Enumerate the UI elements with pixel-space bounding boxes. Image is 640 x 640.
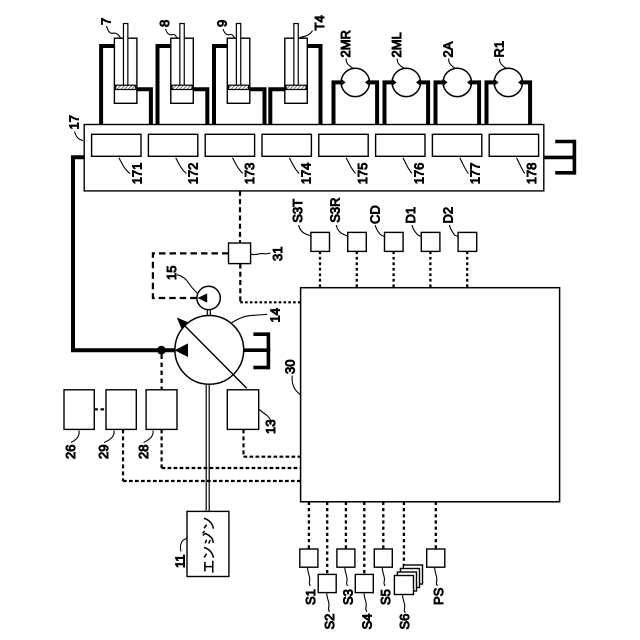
box 29 (106, 390, 136, 430)
wire dashed below box31 (239, 264, 241, 303)
wire dotted controller to S2 (326, 502, 328, 575)
leader for D1 (412, 225, 422, 237)
wire dotted controller to S5 (382, 502, 384, 549)
CONTROLLER (282, 198, 559, 630)
wire dotted controller to S6 (403, 502, 405, 576)
leader for 171 (119, 158, 130, 174)
swash-plate diagonal of pump 14 (184, 325, 247, 388)
svg-text:S5: S5 (378, 589, 393, 605)
wire R1 left pipe (487, 82, 496, 124)
wire dashed 26-29 link (94, 408, 106, 410)
leader for 2ML (397, 59, 404, 69)
motor R1 (494, 68, 522, 96)
svg-text:S3T: S3T (290, 199, 305, 223)
PUMP GROUP (153, 191, 301, 512)
svg-text:173: 173 (242, 163, 257, 185)
wire dotted S3T to controller (319, 251, 321, 287)
leader for PS (435, 568, 438, 586)
leader for T4 (300, 31, 313, 38)
leader for 177 (460, 158, 469, 174)
svg-text:174: 174 (299, 163, 314, 185)
valve 172 (148, 134, 197, 156)
wire cylinder9 left pipe (214, 46, 228, 125)
leader for 14 (231, 314, 268, 323)
wire cylinder7 right pipe (137, 89, 151, 124)
wire cylinder7 left pipe (101, 46, 115, 125)
leader for 172 (176, 158, 187, 174)
motor 2A (443, 68, 471, 96)
wire dotted CD to controller (392, 251, 394, 287)
svg-text:CD: CD (368, 205, 383, 224)
valve 174 (262, 134, 311, 156)
svg-text:172: 172 (186, 163, 201, 185)
svg-text:9: 9 (214, 20, 229, 27)
arrowhead 2MR right (365, 79, 370, 87)
leader for R1 (500, 59, 507, 69)
wire dotted S3R to controller (356, 251, 358, 287)
wire dotted D2 to controller (466, 251, 468, 287)
sensor box S5 (374, 549, 392, 567)
leader for 26 (71, 431, 79, 443)
svg-text:15: 15 (164, 266, 179, 280)
junction dot on supply line (157, 346, 166, 355)
arrowhead pump14 outlet (left) (175, 343, 189, 357)
motor 2MR (341, 68, 369, 96)
arrowhead 2MR left (341, 79, 346, 87)
leader for S3 (345, 568, 348, 586)
tank bracket right of block: vertical (573, 140, 577, 175)
cylinder 8 body (171, 38, 194, 103)
svg-text:S3: S3 (341, 589, 356, 605)
leader for 176 (403, 158, 412, 174)
svg-text:D1: D1 (403, 207, 418, 224)
wire dashed manifold to box31 (239, 191, 241, 243)
sensor box PS (427, 549, 445, 567)
wire R1 right pipe (521, 82, 530, 124)
arrowhead in pump 15 (198, 293, 208, 302)
wire cylinderT4 left-bottom pipe (270, 89, 285, 124)
svg-text:2ML: 2ML (389, 32, 404, 57)
svg-text:2A: 2A (440, 41, 455, 57)
leader for 31 (251, 253, 270, 254)
valve 171 (92, 134, 141, 156)
leader for D2 (449, 225, 458, 237)
wire dotted 28 to controller (162, 467, 301, 469)
wire thick supply line block-to-pump (73, 157, 175, 350)
leader for 15 (177, 275, 198, 294)
sensor box CD (385, 232, 404, 251)
arrowhead 2ML left (392, 79, 397, 87)
svg-text:S1: S1 (303, 589, 318, 605)
leader for 7 (107, 26, 121, 38)
svg-text:29: 29 (96, 445, 111, 459)
MANIFOLD GROUP (67, 115, 577, 355)
wire dotted controller to S1 (308, 502, 310, 549)
svg-text:R1: R1 (491, 41, 506, 58)
leader for 2MR (346, 59, 353, 69)
valve 177 (432, 134, 481, 156)
svg-text:176: 176 (411, 163, 426, 185)
svg-text:177: 177 (468, 163, 483, 185)
cylinder 9 rod (236, 24, 240, 86)
wire cylinderT4 right-top pipe (307, 46, 321, 125)
svg-text:171: 171 (129, 163, 144, 185)
leader for CD (375, 225, 385, 237)
leader for S4 (364, 593, 367, 612)
leader for S5 (382, 568, 385, 586)
leader for 29 (104, 431, 114, 443)
leader for 9 (223, 29, 235, 38)
wire 2A left pipe (436, 82, 445, 124)
CYLINDER GROUP (99, 15, 328, 124)
sensor box D1 (421, 232, 440, 251)
cylinder 8 rod (180, 24, 184, 86)
svg-text:PS: PS (431, 587, 446, 605)
wire 2MR left pipe (334, 82, 343, 124)
cylinder 7 rod (123, 24, 127, 86)
sensor box S2 (318, 574, 336, 592)
svg-text:8: 8 (157, 20, 172, 27)
leader for S3R (336, 225, 348, 237)
leader for S3T (299, 225, 312, 237)
sensor stack S6 box2 (397, 572, 416, 591)
cylinder 7 piston (116, 85, 136, 89)
leader for 175 (346, 158, 356, 174)
tank bracket right of pump: vertical (267, 332, 271, 369)
svg-text:7: 7 (99, 18, 114, 25)
svg-text:28: 28 (136, 445, 151, 459)
leader for S1 (308, 568, 311, 586)
sensor box S3T (311, 232, 330, 251)
svg-text:175: 175 (355, 163, 370, 185)
wire 2ML right pipe (419, 82, 428, 124)
leader for 2A (449, 59, 456, 69)
wire 2A right pipe (470, 82, 479, 124)
svg-text:S4: S4 (360, 614, 375, 630)
wire dashed pilot loop 31 to pump15 (153, 253, 229, 298)
leader for 8 (166, 29, 178, 38)
leader for 173 (233, 158, 243, 174)
sensor box S6 front (394, 576, 413, 595)
engine text (katakana ENJIN) (203, 518, 213, 572)
wire dotted 31-corner to controller (240, 301, 300, 303)
valve 175 (319, 134, 368, 156)
valve 178 (489, 134, 538, 156)
controller box 30 (301, 288, 560, 502)
engine shaft double line (206, 384, 209, 511)
svg-text:S3R: S3R (327, 198, 342, 223)
cylinder 9 piston (229, 85, 249, 89)
wire dotted controller to S3 (345, 502, 347, 549)
pilot pump 15 (197, 286, 220, 309)
svg-text:30: 30 (282, 360, 297, 374)
MOTOR GROUP (334, 30, 531, 124)
sensor stack S6 box3 (400, 569, 419, 588)
svg-text:2MR: 2MR (338, 30, 353, 57)
sensor box D2 (458, 232, 477, 251)
box 13 regulator (227, 390, 258, 430)
svg-text:D2: D2 (441, 207, 456, 224)
leader for 28 (144, 431, 154, 443)
shaft pump15 to pump14 (207, 310, 210, 316)
sensor box S4 (355, 574, 373, 592)
wire dotted 13 to controller (244, 456, 301, 458)
cylinder T4 rod (294, 24, 298, 86)
leader for S2 (327, 593, 330, 612)
cylinder T4 piston (286, 85, 306, 89)
sensor box S1 (300, 549, 318, 567)
control valve block 17 (84, 125, 544, 191)
tank bracket right of pump: bottom arm (253, 366, 268, 370)
wire cylinder8 left pipe (158, 46, 172, 125)
sensor box S3R (348, 232, 367, 251)
box 28 (146, 390, 177, 430)
wire cylinder8 right pipe (193, 89, 207, 124)
tank bracket right of block: top arm (555, 140, 574, 144)
leader for 178 (517, 158, 525, 174)
arrowhead 2A left (443, 79, 448, 87)
tank bracket right of pump: top arm (253, 332, 268, 336)
valve 176 (376, 134, 425, 156)
wire cylinder9 right pipe (249, 89, 264, 124)
wire 2ML left pipe (385, 82, 394, 124)
sensor box S3 (337, 549, 355, 567)
valve 173 (205, 134, 254, 156)
wire 2MR right pipe (368, 82, 377, 124)
cylinder T4 body (285, 38, 308, 103)
svg-text:S2: S2 (322, 614, 337, 630)
arrowhead 2ML right (416, 79, 421, 87)
svg-text:11: 11 (173, 555, 188, 569)
svg-text:178: 178 (524, 163, 539, 185)
wire dotted D1 to controller (429, 251, 431, 287)
arrowhead 2A right (467, 79, 472, 87)
engine box 11 (187, 511, 229, 576)
wire dotted controller to S4 (363, 502, 365, 575)
main pump 14 (175, 316, 244, 385)
svg-text:17: 17 (67, 115, 82, 129)
motor 2ML (392, 68, 420, 96)
sensor stack S6 back box (403, 565, 422, 584)
wire dashed below box29 (122, 429, 124, 481)
leader for 13 (259, 409, 271, 422)
wire dashed junction to box28 (161, 355, 163, 390)
cylinder 9 body (227, 38, 250, 103)
solenoid box 31 (229, 243, 251, 264)
cylinder 7 body (114, 38, 136, 103)
arrowhead R1 right (518, 79, 523, 87)
tank bracket right of block: center wire (544, 156, 576, 160)
svg-text:T4: T4 (312, 15, 327, 30)
wire dotted 29 to controller (123, 480, 301, 482)
wire dashed below box28 (161, 429, 163, 468)
LOWER BOXES (63, 355, 301, 577)
arrowhead R1 left (494, 79, 499, 87)
cylinder 8 piston (172, 85, 192, 89)
leader for 30 (292, 376, 301, 396)
leader for 174 (289, 158, 299, 174)
wire dashed below box13 (242, 429, 244, 456)
leader for 11 (180, 536, 187, 552)
wire dotted controller to PS (435, 502, 437, 549)
svg-text:31: 31 (270, 247, 285, 261)
tank bracket right of pump: center wire (244, 348, 271, 352)
leader for S6 (403, 595, 406, 613)
leader for 17 (75, 132, 84, 141)
svg-text:14: 14 (268, 308, 283, 322)
svg-text:26: 26 (63, 445, 78, 459)
svg-text:S6: S6 (397, 614, 412, 630)
arrowhead on swash diagonal (177, 318, 188, 329)
box 26 (64, 390, 94, 430)
tank bracket right of block: bottom arm (555, 171, 574, 175)
